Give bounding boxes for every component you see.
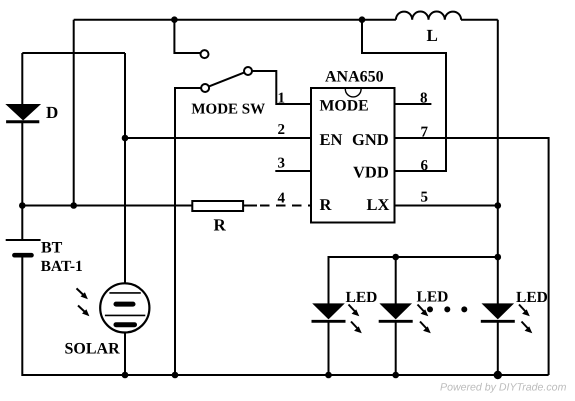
wire pin 3 stub xyxy=(275,170,311,172)
arrow LED3 emission 2 xyxy=(522,322,533,334)
wire top rail right segment after inductor xyxy=(461,19,498,21)
node junction right rail / LED bus xyxy=(495,254,502,261)
switch MODE SW xyxy=(191,50,265,117)
wire LED2 anode drop xyxy=(395,257,397,304)
node junction LED2 / LED bus xyxy=(392,254,399,261)
svg-text:MODE SW: MODE SW xyxy=(191,102,265,118)
svg-text:BT: BT xyxy=(41,240,63,257)
wire GND pin 7 to right side down to bottom bus xyxy=(394,138,549,375)
wire LED2 cathode to bus xyxy=(395,321,397,375)
node junction left rail / R line xyxy=(19,202,26,209)
svg-text:SOLAR: SOLAR xyxy=(65,341,121,358)
node junction bus / LED3 xyxy=(494,371,502,379)
node junction top rail to VDD wire xyxy=(359,16,366,23)
LED D3 xyxy=(481,289,548,322)
svg-text:BAT-1: BAT-1 xyxy=(41,258,83,275)
arrow LED2 emission 1 xyxy=(418,305,429,317)
wire LX pin 5 to right rail xyxy=(394,205,498,207)
svg-text:Powered by DIYTrade.com: Powered by DIYTrade.com xyxy=(440,382,567,394)
node ellipsis dots between LEDs xyxy=(427,306,467,312)
svg-text:3: 3 xyxy=(278,156,286,172)
pin number 1 xyxy=(278,90,286,106)
svg-text:D: D xyxy=(46,103,58,122)
wire top rail left segment xyxy=(74,19,396,21)
svg-text:EN: EN xyxy=(320,130,343,149)
wire dashed resistor to pin 4 xyxy=(243,205,311,207)
wire switch common to bottom bus xyxy=(175,88,201,375)
wire diode cathode to battery xyxy=(21,122,23,240)
watermark Powered by DIYTrade.com xyxy=(440,382,567,394)
wire pin 8 stub xyxy=(394,103,431,105)
svg-text:R: R xyxy=(214,216,227,235)
svg-text:1: 1 xyxy=(278,90,286,106)
wire VDD from top rail to pin 6 xyxy=(362,20,446,171)
op-amp U1 ANA650 IC body xyxy=(311,69,395,223)
pin number 8 xyxy=(420,91,428,107)
solar cell SOLAR xyxy=(65,283,150,357)
node junction top rail to mode switch xyxy=(171,16,178,23)
svg-text:4: 4 xyxy=(278,191,286,207)
wire solar branch vertical xyxy=(124,53,126,283)
pin number 2 xyxy=(278,122,286,138)
wire switch feed from top rail xyxy=(174,20,200,53)
wire LED1 cathode to bus xyxy=(328,321,330,375)
arrow light into solar 2 xyxy=(78,306,89,317)
inductor L xyxy=(396,12,461,45)
wire EN line to pin 2 xyxy=(125,137,311,139)
svg-text:LED: LED xyxy=(417,288,449,305)
svg-text:LED: LED xyxy=(346,289,378,306)
resistor R xyxy=(192,201,243,235)
wire right rail from top to LED3 xyxy=(497,20,499,304)
svg-text:5: 5 xyxy=(421,190,429,206)
arrow LED2 emission 2 xyxy=(420,322,431,334)
pin number 4 xyxy=(278,191,286,207)
wire LED anode bus xyxy=(329,257,498,304)
pin number 5 xyxy=(421,190,429,206)
node junction bus / LED2 xyxy=(392,372,399,379)
battery BT BAT-1 xyxy=(6,240,83,276)
wire LED3 cathode to bus xyxy=(497,321,499,375)
svg-text:LX: LX xyxy=(367,195,390,214)
node junction bus / switch branch xyxy=(172,372,179,379)
wire left drop from top rail to R line xyxy=(73,20,75,206)
node junction LX / right rail xyxy=(495,202,502,209)
arrow LED3 emission 1 xyxy=(519,305,530,317)
node junction bus / LED1 xyxy=(325,372,332,379)
wire R line from left rail to resistor xyxy=(22,205,192,207)
LED D2 xyxy=(379,288,449,321)
svg-text:MODE: MODE xyxy=(320,97,369,114)
pin number 7 xyxy=(421,124,429,140)
svg-text:R: R xyxy=(320,195,333,214)
arrow light into solar 1 xyxy=(77,288,88,299)
node junction EN tap xyxy=(122,135,129,142)
svg-text:2: 2 xyxy=(278,122,286,138)
LED D1 xyxy=(312,289,378,322)
pin number 6 xyxy=(421,158,429,174)
node junction left drop / R line xyxy=(70,202,77,209)
svg-text:VDD: VDD xyxy=(353,162,389,181)
svg-text:GND: GND xyxy=(352,130,389,149)
wire upper-left horizontal link xyxy=(22,52,125,54)
svg-text:LED: LED xyxy=(516,289,548,306)
wire battery to bottom bus xyxy=(22,258,548,376)
arrow LED1 emission 1 xyxy=(349,305,360,317)
node junction bus / solar xyxy=(122,372,129,379)
svg-text:L: L xyxy=(427,26,438,45)
diode D xyxy=(6,103,58,122)
arrow LED1 emission 2 xyxy=(351,322,362,334)
wire left rail upper (to diode) xyxy=(21,53,23,105)
wire switch to pin 1 xyxy=(252,71,311,104)
wire solar bottom to bus xyxy=(124,333,126,376)
svg-text:ANA650: ANA650 xyxy=(325,69,384,86)
pin number 3 xyxy=(278,156,286,172)
